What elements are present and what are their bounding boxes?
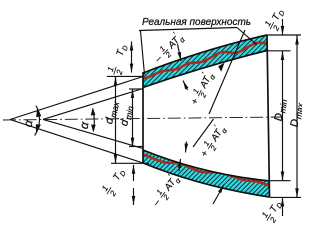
svg-text:min: min [277,98,289,113]
tolerance band bottom hatch [143,150,270,197]
arc2 arrowhead lower [91,125,96,133]
large end face [267,35,270,198]
leader for minus label top [178,44,182,61]
D_min label [273,98,289,122]
bottom band inner edge [143,150,270,181]
d_max dimension line [115,77,117,164]
real surface wavy line bottom [143,155,270,187]
ext line small end bottom [111,162,149,164]
d_max label [103,99,121,125]
ext line small end inner top [129,88,143,90]
left leader from underline to wavy start [141,31,145,75]
outer cone extension bottom [10,120,143,164]
tolerance band top hatch [143,35,267,88]
svg-text:max: max [293,102,302,120]
plus 1/2 AT'a label bottom [195,121,230,161]
ext line large end top outer [268,34,302,36]
outer cone extension top (apex to small end) [10,77,143,120]
leader for minus label bottom [179,159,181,171]
1/2 TD label bottom-left [99,165,130,199]
plus 1/2 AT'a label top [185,68,218,108]
angle arc at inner apex [93,109,95,132]
ext line small end inner bottom [129,146,143,148]
arc1 arrowhead upper [36,107,41,118]
inner cone extension bottom [43,119,143,148]
ext line large end bottom inner [270,180,291,182]
steep leader line crossing top band [209,30,245,114]
arrow down to inner edge ext bottom [186,142,187,153]
tolerance band bottom (cyan fill) [143,150,270,197]
leader from label to wavy line [237,28,257,46]
top band inner edge [143,51,267,88]
minus 1/2 AT'a label top [149,28,188,67]
arc2 arrowhead upper [91,108,96,116]
1/2 TD label top-left [105,42,132,77]
1/2 TD dim bottom-left [133,165,135,181]
centerline (dash-dot axis) [3,117,283,120]
cone outline: top band outer edge [143,35,267,73]
ext line large end bottom outer [270,196,301,198]
svg-text:Реальная поверхность: Реальная поверхность [142,17,251,28]
minus 1/2 AT'a label bottom [147,170,184,210]
arrow to inner edge top (up-left) [183,81,188,91]
arrowhead on steep line at inner edge [218,63,224,72]
D_max dimension line [296,35,298,197]
inner cone extension top [43,89,143,120]
real surface wavy line top [143,43,267,79]
D_max label [289,101,306,128]
1/2 TD dim top-left [131,42,133,58]
tolerance band top (cyan fill) [143,35,267,88]
arrow up to outer edge from below [213,185,224,205]
D_min dimension line with 1/2 TD arrows (right) [282,19,284,35]
d_min label [118,104,136,127]
d_min dimension line [132,89,134,97]
bottom band outer edge [143,163,270,197]
arc1 arrowhead lower [36,124,41,134]
1/2 TD label bottom-right [259,197,286,226]
angle arc at outer apex [35,106,40,136]
ext line small end top [107,75,143,77]
underline of real surface label [139,28,237,31]
steep line above bottom label [193,119,214,147]
1/2 TD label top-right [262,6,289,34]
ext line large end top inner [268,50,291,52]
small end face [142,72,144,163]
